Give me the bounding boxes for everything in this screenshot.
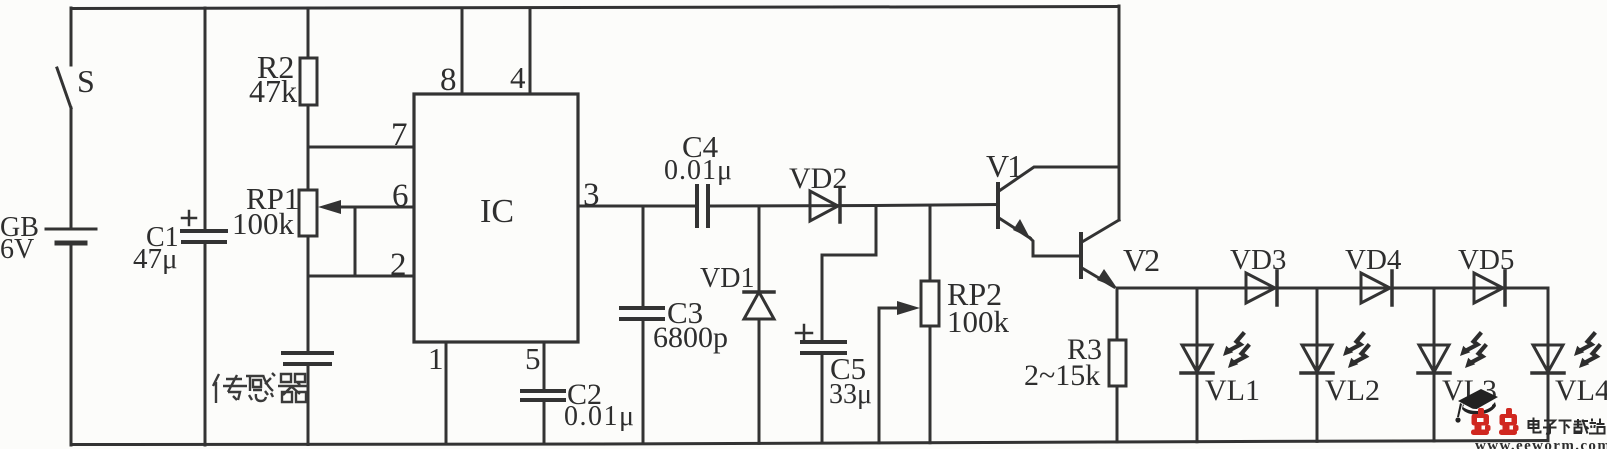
potentiometer RP2	[921, 206, 939, 443]
wire pin6 with wiper arrow to RP1	[318, 200, 414, 214]
svg-text:1: 1	[428, 341, 444, 376]
svg-text:33μ: 33μ	[829, 379, 872, 410]
transistor V2	[1081, 6, 1119, 288]
svg-text:VL2: VL2	[1325, 374, 1380, 407]
diode VD1	[744, 206, 774, 443]
svg-text:VL1: VL1	[1205, 374, 1260, 407]
wire bottom rail	[71, 441, 1548, 445]
svg-text:0.01μ: 0.01μ	[664, 155, 733, 186]
svg-text:IC: IC	[480, 193, 514, 230]
svg-text:VD1: VD1	[700, 263, 754, 294]
capacitor C2	[522, 391, 564, 444]
svg-text:VD4: VD4	[1345, 244, 1402, 276]
wire RP2 wiper arrow	[879, 301, 920, 443]
capacitor C5	[796, 206, 876, 443]
wire pin2	[308, 275, 414, 278]
capacitor C3	[621, 206, 663, 444]
svg-text:VL4: VL4	[1555, 374, 1607, 407]
sensor label 传感器 (hand drawn strokes)	[213, 373, 308, 403]
wire top rail	[71, 7, 1119, 9]
svg-text:0.01μ: 0.01μ	[564, 401, 636, 432]
transistor V1	[998, 167, 1119, 256]
svg-text:47μ: 47μ	[133, 243, 178, 275]
watermark 电子下载站 text strokes	[1529, 418, 1605, 435]
capacitor C4	[697, 186, 998, 226]
svg-text:V2: V2	[1123, 242, 1159, 278]
resistor R2	[300, 8, 317, 190]
wire LED row	[1117, 287, 1548, 290]
diode VD5	[1474, 271, 1505, 305]
svg-text:7: 7	[391, 117, 408, 153]
watermark 虫虫 red characters	[1471, 408, 1519, 435]
LED VL1	[1181, 288, 1248, 442]
watermark logo cap	[1455, 389, 1498, 423]
svg-text:S: S	[77, 63, 95, 99]
svg-text:6V: 6V	[0, 234, 34, 265]
wire pin7	[308, 146, 414, 149]
svg-text:3: 3	[583, 177, 600, 213]
diode VD3	[1246, 271, 1277, 305]
svg-text:100k: 100k	[232, 206, 295, 241]
LED VL2	[1301, 288, 1368, 441]
LED VL3	[1418, 288, 1485, 441]
potentiometer RP1	[299, 190, 317, 353]
svg-text:VD5: VD5	[1458, 244, 1514, 276]
svg-text:V1: V1	[986, 148, 1022, 184]
svg-text:47k: 47k	[249, 73, 297, 109]
switch S	[57, 68, 71, 229]
svg-text:2: 2	[390, 247, 407, 283]
diode VD2	[810, 188, 840, 222]
LED VL4	[1532, 288, 1599, 441]
resistor R3	[1109, 288, 1126, 442]
wire pin8	[461, 8, 464, 94]
op-amp IC box	[414, 94, 578, 342]
svg-text:6800p: 6800p	[653, 321, 728, 354]
svg-text:8: 8	[440, 62, 457, 98]
wire link pin6-pin2	[354, 207, 357, 276]
svg-text:100k: 100k	[947, 304, 1010, 339]
svg-text:6: 6	[392, 178, 409, 214]
wire pin4	[529, 8, 532, 94]
capacitor C1	[182, 8, 226, 445]
svg-text:VD3: VD3	[1230, 244, 1286, 276]
diode VD4	[1361, 271, 1392, 305]
wire pin5	[543, 342, 546, 391]
svg-text:5: 5	[525, 341, 541, 376]
svg-text:www.eeworm.com: www.eeworm.com	[1475, 438, 1607, 449]
wire battery branch upper	[70, 8, 73, 65]
wire pin1	[445, 342, 448, 444]
wire pin3	[578, 205, 694, 208]
svg-text:4: 4	[510, 60, 526, 95]
svg-text:VD2: VD2	[789, 162, 847, 195]
sensor capacitor	[283, 353, 332, 445]
battery GB	[46, 229, 96, 445]
svg-text:2~15k: 2~15k	[1024, 359, 1100, 392]
